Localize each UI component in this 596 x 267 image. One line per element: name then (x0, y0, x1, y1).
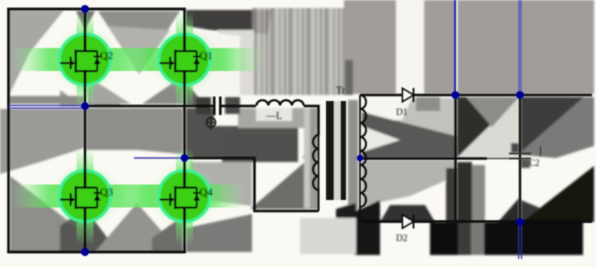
junction node bottom of leg A (81, 248, 89, 256)
wire: inductor to transformer primary top (304, 106, 319, 135)
diode D1 (403, 88, 414, 102)
svg-text:C2: C2 (529, 158, 540, 168)
blue vertical line to D1 output node (455, 0, 457, 94)
wire: secondary bottom to diode D2 (360, 220, 402, 223)
wire: secondary top to diode D1 (360, 94, 402, 97)
green highlight glow around Q4 (112, 148, 244, 245)
blue vertical line to C2 top node (519, 0, 522, 94)
label Cb (206, 116, 215, 130)
junction node A (81, 102, 89, 110)
wire: node B horizontal (185, 158, 319, 211)
junction node top of leg A (81, 5, 89, 13)
highlight circle of Q2 (60, 34, 111, 85)
wire: leg A vertical (Q2/Q3 branch) (84, 9, 87, 252)
capacitor C2 plate 2 (509, 158, 531, 160)
MOSFET Q3 (60, 170, 101, 222)
green highlight glow around Q1 (112, 12, 262, 109)
capacitor Cb plate 2 (219, 97, 222, 116)
wire: D1 to right edge output plus (414, 94, 593, 97)
wire: bottom rail horizontal (7, 251, 186, 254)
MOSFET Q2 (60, 34, 101, 86)
highlight circle of Q4 (159, 171, 210, 222)
svg-text:—L: —L (265, 111, 282, 122)
wire: node A horizontal to blocking capacitor (85, 105, 213, 108)
svg-text:Q2: Q2 (100, 50, 113, 62)
svg-text:D2: D2 (396, 234, 408, 244)
wire: capacitor to inductor (222, 105, 257, 108)
MOSFET Q1 (160, 34, 201, 86)
blue probe line bottom right (double) (519, 223, 522, 259)
transformer primary winding (318, 133, 320, 192)
inductor Lr (257, 100, 304, 105)
wire: left input rail vertical (7, 9, 10, 252)
highlight circle of Q3 (60, 171, 111, 222)
wire: top rail horizontal (7, 8, 186, 11)
wire: D2 to right edge output minus (414, 220, 593, 223)
blue probe line at node A (double) (9, 106, 84, 109)
capacitor C2 vertical branch (519, 95, 521, 222)
blue probe line at node B (134, 157, 183, 159)
svg-text:Q3: Q3 (100, 187, 113, 199)
wire: center tap horizontal (360, 157, 487, 159)
junction node C2 bottom (516, 218, 524, 226)
transformer secondary winding (359, 95, 361, 222)
wire: center tap thin continuation (487, 158, 520, 160)
svg-text:D1: D1 (396, 108, 408, 118)
junction node center tap (357, 155, 363, 161)
wire: first output branch vertical (454, 95, 456, 222)
capacitor C2 plate 1 (509, 153, 531, 155)
green highlight glow around Q3 (12, 148, 158, 245)
svg-text:Tr: Tr (336, 86, 346, 97)
green highlight glow around Q2 (12, 12, 158, 109)
svg-text:Q1: Q1 (200, 50, 213, 62)
wire: leg B vertical (Q1/Q4 branch) (183, 9, 186, 252)
junction node C2 top (516, 91, 524, 99)
MOSFET Q4 (160, 170, 201, 222)
label C2 tick mark (540, 146, 542, 156)
diode D2 (403, 215, 414, 229)
svg-text:Q4: Q4 (200, 187, 214, 199)
capacitor Cb plate 1 (213, 97, 216, 116)
transformer core bar 2 (341, 101, 347, 200)
junction node D1 output (452, 91, 460, 99)
junction node B (181, 154, 189, 162)
transformer core gap (334, 101, 341, 200)
transformer core bar 1 (326, 101, 334, 200)
highlight circle of Q1 (159, 34, 210, 85)
